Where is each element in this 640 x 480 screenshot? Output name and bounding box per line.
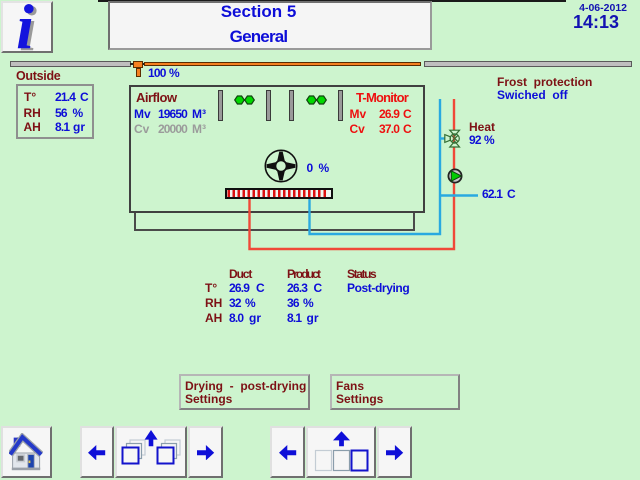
slider orange handle (133, 61, 143, 68)
nav group 1: left arrow button (80, 426, 114, 478)
button drying settings (179, 374, 310, 410)
row Cv 20000 M3 (134, 123, 149, 135)
damper bar 3 (289, 90, 294, 121)
slider gray track left (10, 61, 131, 67)
nav group 2: left arrow button (270, 426, 305, 478)
heat value 92 % (469, 134, 481, 146)
nav group 2: right arrow button (377, 426, 412, 478)
info icon i (3, 0, 47, 54)
nav group 2: pages-row button (306, 426, 376, 478)
damper bar 1 (218, 90, 223, 121)
frost protection label (497, 76, 592, 88)
damper bar 4 (338, 90, 343, 121)
row Cv 37.0 C (350, 123, 365, 135)
water temperature 62.1 C (482, 188, 502, 200)
title box (108, 1, 432, 50)
fan (264, 149, 298, 183)
slider value 100 % (148, 67, 166, 79)
outside box (16, 84, 94, 139)
outside RH row (24, 107, 41, 119)
row Mv 26.9 C (350, 108, 367, 120)
table header Duct (229, 268, 251, 280)
top black line (98, 0, 566, 2)
damper bar 2 (266, 90, 271, 121)
button fans settings (330, 374, 460, 410)
outside label (16, 70, 60, 83)
label Airflow (136, 91, 177, 104)
red supply wire (250, 99, 455, 249)
heater element (225, 188, 333, 199)
home icon (9, 433, 43, 471)
table header Status (347, 268, 375, 280)
table header Product (287, 268, 319, 280)
outside AH row (24, 121, 41, 133)
table row T (205, 282, 217, 294)
slider connector left (130, 63, 134, 65)
pump P1 (448, 169, 461, 182)
frost protection state (497, 89, 568, 101)
fan speed 0 % (307, 162, 314, 174)
indicator dots pair 1 (234, 95, 256, 105)
nav group 1: right arrow button (188, 426, 223, 478)
airflow tray (lower plenum) (134, 213, 415, 231)
slider orange filled line (144, 62, 421, 67)
nav group 1: pages-up button (115, 426, 187, 478)
cyan stub to temperature label (440, 194, 478, 196)
heat label (469, 121, 495, 133)
table row RH (205, 297, 222, 309)
title: General (96, 28, 421, 45)
row Mv 19650 M3 (134, 108, 151, 120)
slider gray track right (424, 61, 632, 67)
date (487, 3, 627, 14)
cyan return wire (310, 99, 441, 234)
table row AH (205, 312, 222, 324)
clock (479, 13, 619, 31)
indicator dots pair 2 (306, 95, 328, 105)
outside T row (24, 91, 36, 103)
label T-Monitor (356, 91, 408, 104)
home button (1, 426, 52, 478)
slider connector right (142, 63, 146, 65)
title: Section 5 (96, 3, 421, 20)
airflow main box (129, 85, 425, 213)
info button (1, 1, 53, 53)
valve V1 (445, 130, 460, 147)
valve stub (440, 137, 447, 139)
